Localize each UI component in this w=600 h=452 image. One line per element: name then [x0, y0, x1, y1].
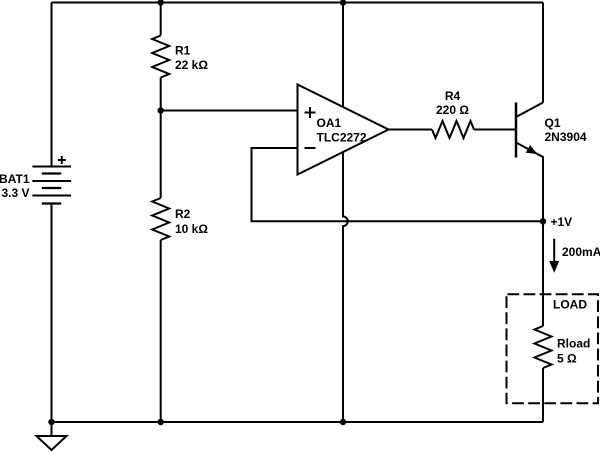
- svg-text:3.3 V: 3.3 V: [1, 186, 29, 200]
- svg-text:R2: R2: [175, 207, 191, 221]
- svg-text:TLC2272: TLC2272: [317, 131, 367, 145]
- svg-text:OA1: OA1: [317, 116, 342, 130]
- svg-text:5 Ω: 5 Ω: [557, 352, 577, 366]
- svg-text:BAT1: BAT1: [0, 172, 30, 186]
- svg-text:LOAD: LOAD: [553, 298, 587, 312]
- svg-text:+1V: +1V: [551, 215, 573, 229]
- svg-text:Q1: Q1: [545, 116, 561, 130]
- svg-text:Rload: Rload: [557, 337, 590, 351]
- svg-text:R1: R1: [175, 44, 191, 58]
- svg-text:2N3904: 2N3904: [545, 130, 587, 144]
- svg-text:R4: R4: [445, 89, 461, 103]
- svg-text:10 kΩ: 10 kΩ: [175, 222, 208, 236]
- svg-text:220 Ω: 220 Ω: [436, 103, 469, 117]
- svg-text:22 kΩ: 22 kΩ: [175, 58, 208, 72]
- svg-text:200mA: 200mA: [562, 245, 600, 259]
